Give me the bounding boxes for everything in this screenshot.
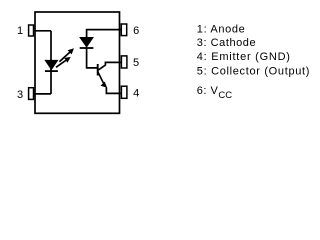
svg-text:1: Anode: 1: Anode [197, 23, 246, 35]
wire photodiode anode to pin 6 (Vcc) [87, 30, 122, 38]
svg-text:3: Cathode: 3: Cathode [197, 37, 256, 49]
wire emitter to pin 4 (GND) [106, 88, 121, 94]
svg-text:4: Emitter (GND): 4: Emitter (GND) [197, 51, 291, 63]
pin 3 lead [29, 88, 34, 100]
wire photodiode cathode to transistor base [87, 48, 97, 68]
LED cathode bar [45, 70, 58, 72]
wire LED vertical branch [50, 31, 52, 94]
pin 6 lead [121, 24, 126, 36]
pin 4 lead [121, 86, 127, 98]
transistor Q1 base bar [97, 64, 99, 76]
svg-text:6: 6 [133, 25, 139, 37]
transistor collector and wire to pin 5 (output) [98, 62, 122, 70]
svg-text:3: 3 [17, 89, 23, 101]
svg-text:4: 4 [133, 87, 139, 99]
svg-text:5: 5 [133, 57, 139, 69]
pin 5 lead [121, 56, 127, 68]
photodiode triangle [80, 37, 94, 47]
wire pin1 to LED anode [33, 30, 51, 32]
svg-text:5: Collector (Output): 5: Collector (Output) [197, 65, 310, 77]
transistor emitter with arrow [98, 72, 107, 88]
pin 1 lead [29, 25, 34, 36]
svg-text:1: 1 [17, 25, 23, 37]
LED emitter diode triangle [45, 60, 58, 70]
wire pin3 to LED cathode [33, 93, 51, 95]
photodiode cathode bar [80, 47, 94, 49]
light arrow upper [59, 48, 74, 62]
light arrow lower [56, 57, 71, 67]
package outline [35, 12, 120, 113]
